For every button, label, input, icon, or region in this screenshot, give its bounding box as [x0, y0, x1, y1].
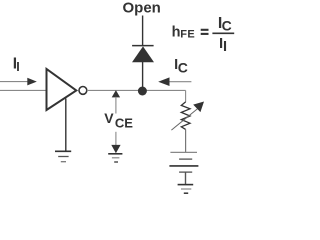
svg-text:CE: CE [115, 115, 133, 130]
svg-text:C: C [178, 59, 188, 75]
svg-text:h: h [172, 25, 181, 41]
svg-text:I: I [16, 60, 19, 74]
svg-text:Open: Open [123, 0, 161, 17]
svg-text:I: I [223, 39, 227, 55]
svg-text:FE: FE [180, 29, 195, 41]
svg-text:C: C [222, 18, 232, 34]
svg-text:V: V [104, 110, 114, 126]
